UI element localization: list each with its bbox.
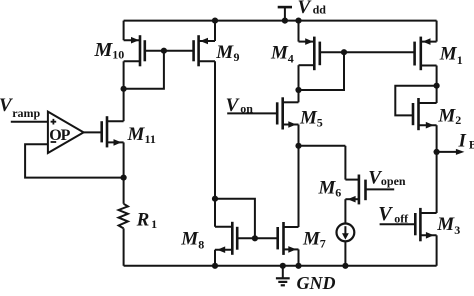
svg-text:8: 8 bbox=[198, 237, 204, 251]
node: M8 source on rail bbox=[212, 263, 218, 269]
node: M9 source on rail bbox=[212, 18, 218, 24]
node: M10 drain junction bbox=[121, 86, 127, 92]
transistor M8 (NMOS, mirrored) bbox=[180, 222, 237, 255]
svg-text:2: 2 bbox=[455, 113, 461, 127]
svg-text:4: 4 bbox=[288, 52, 294, 66]
wire: M10 source to rail bbox=[123, 21, 125, 41]
svg-text:dd: dd bbox=[313, 3, 327, 17]
transistor M6 (NMOS, mirrored) bbox=[318, 175, 366, 205]
wire: M4 drain down to node bbox=[298, 65, 300, 102]
svg-text:M: M bbox=[436, 214, 455, 235]
svg-text:M: M bbox=[439, 43, 458, 64]
svg-text:GND: GND bbox=[297, 273, 336, 291]
wire: op-amp output to M11 gate bbox=[84, 131, 102, 133]
wire: M1 drain down bbox=[436, 66, 438, 104]
svg-text:R: R bbox=[136, 209, 150, 230]
label Vdd bbox=[298, 0, 327, 18]
svg-text:3: 3 bbox=[454, 223, 460, 237]
svg-text:11: 11 bbox=[145, 132, 156, 146]
wire: current source to bottom rail bbox=[344, 241, 346, 266]
node: M4/M1 gate junction bbox=[341, 49, 347, 55]
label Vramp bbox=[0, 95, 41, 120]
wire: M2 source down to IB node bbox=[436, 125, 438, 152]
wire: M4 source to rail bbox=[298, 21, 300, 42]
wire: node across to M6 drain bbox=[299, 145, 346, 147]
wire: feedback from M11 source to op-amp inverting input bbox=[25, 144, 124, 177]
wire: M8/M7 gate wire bbox=[237, 237, 278, 239]
wire: M8 source to bottom rail bbox=[214, 250, 216, 266]
wire: node down to M7 drain bbox=[298, 146, 300, 227]
svg-text:1: 1 bbox=[151, 217, 157, 231]
svg-text:5: 5 bbox=[317, 116, 323, 130]
transistor M7 (NMOS) bbox=[278, 222, 326, 255]
wire: M10-M9 shared gate bbox=[145, 50, 194, 52]
ground symbol bbox=[276, 266, 290, 286]
current source IB bbox=[337, 224, 355, 242]
svg-text:ramp: ramp bbox=[12, 106, 40, 120]
wire: M4-M1 shared gate bbox=[320, 51, 415, 53]
wire: R1 to bottom rail bbox=[123, 228, 125, 265]
wire: M4 diode connection (drain to gate) bbox=[299, 52, 345, 90]
transistor M4 (PMOS) bbox=[270, 37, 320, 71]
node: M4 drain junction bbox=[295, 87, 301, 93]
node: Vdd tap on rail bbox=[282, 18, 288, 24]
svg-text:V: V bbox=[378, 203, 393, 225]
label GND bbox=[297, 273, 336, 293]
transistor M1 (PMOS, mirrored) bbox=[415, 37, 463, 71]
svg-text:M: M bbox=[299, 108, 318, 129]
node: M8 diode tap bbox=[212, 196, 218, 202]
resistor R1 bbox=[119, 204, 158, 231]
node: IB output junction bbox=[434, 149, 440, 155]
wire: Vdd top rail bbox=[124, 20, 437, 22]
label Voff bbox=[378, 203, 409, 226]
wire: ground bottom rail bbox=[124, 265, 437, 267]
wire: M10 diode connection (drain to gate) bbox=[124, 51, 164, 89]
wire: M7 source to bottom rail bbox=[298, 249, 300, 265]
wire: IB output arrow bbox=[437, 149, 465, 155]
svg-text:M: M bbox=[318, 178, 337, 199]
wire: M6 source down to current source bbox=[344, 199, 346, 223]
wire: M8 diode connection bbox=[215, 199, 255, 239]
wire: M11 source down to feedback node bbox=[123, 142, 125, 177]
label Von bbox=[226, 95, 254, 116]
svg-text:open: open bbox=[381, 174, 406, 188]
svg-text:I: I bbox=[458, 130, 467, 151]
wire: M9 drain down to M8 drain bbox=[214, 61, 216, 227]
wire: M1 source to rail corner bbox=[436, 21, 438, 42]
wire: M5 source down to node bbox=[298, 125, 300, 146]
wire: M2 gate connection bbox=[395, 86, 436, 116]
wire: Vopen gate input (underline) bbox=[366, 188, 395, 190]
label Vopen bbox=[368, 167, 406, 188]
transistor M3 (NMOS) bbox=[415, 208, 460, 241]
svg-text:V: V bbox=[0, 95, 13, 116]
svg-text:M: M bbox=[180, 229, 199, 250]
svg-text:V: V bbox=[298, 0, 312, 18]
wire: down to M3 drain bbox=[436, 152, 438, 213]
wire: M10 drain down to node bbox=[123, 61, 125, 89]
svg-text:10: 10 bbox=[112, 48, 124, 62]
svg-text:7: 7 bbox=[320, 236, 326, 250]
wire: Voff gate input (underline) bbox=[380, 223, 416, 225]
svg-text:M: M bbox=[215, 42, 234, 63]
wire: Von gate input (underline) bbox=[227, 112, 277, 114]
svg-text:1: 1 bbox=[457, 53, 463, 67]
svg-text:M: M bbox=[302, 229, 321, 250]
svg-text:6: 6 bbox=[335, 185, 341, 199]
wire: M3 source to bottom rail bbox=[436, 235, 438, 265]
wire: M9 source to rail bbox=[214, 21, 216, 41]
node: ground tap on rail bbox=[280, 263, 286, 269]
svg-text:OP: OP bbox=[49, 127, 70, 144]
svg-text:B: B bbox=[469, 138, 474, 152]
svg-text:M: M bbox=[127, 124, 146, 145]
wire: node to R1 bbox=[123, 178, 125, 204]
transistor M5 (NMOS) bbox=[277, 97, 323, 129]
Vdd supply symbol bbox=[278, 7, 292, 21]
svg-text:M: M bbox=[270, 42, 289, 63]
node: M8/M7 gate junction bbox=[252, 235, 258, 241]
transistor M2 (NMOS) bbox=[413, 98, 461, 130]
node: M1 drain / M2 gate junction bbox=[434, 83, 440, 89]
node: M7 source on rail bbox=[295, 263, 301, 269]
node: M4 source on rail bbox=[295, 18, 301, 24]
transistor M10 (PMOS) bbox=[94, 35, 145, 66]
transistor M11 (NMOS) bbox=[102, 116, 156, 147]
node: gate junction M10/M9 bbox=[161, 48, 167, 54]
op-amp OP bbox=[48, 112, 84, 153]
wire: Vramp input bbox=[11, 121, 48, 123]
transistor M9 (PMOS, mirrored) bbox=[194, 35, 240, 66]
wire: M6 drain up to node wire bbox=[344, 146, 346, 180]
svg-text:M: M bbox=[94, 39, 114, 61]
svg-text:9: 9 bbox=[234, 50, 240, 64]
node: current source on rail bbox=[342, 263, 348, 269]
wire: M11 drain up to M10 drain node bbox=[123, 89, 125, 121]
svg-text:M: M bbox=[437, 106, 456, 127]
node: M5 source junction bbox=[295, 143, 301, 149]
label IB bbox=[458, 130, 474, 151]
node: feedback/R1 junction bbox=[121, 175, 127, 181]
